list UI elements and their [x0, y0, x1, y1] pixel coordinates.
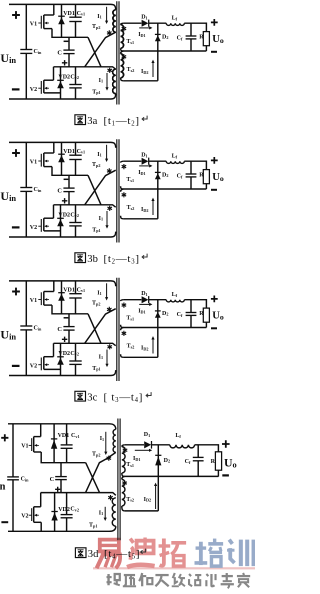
diode VD2 symbol	[57, 79, 64, 81]
transistor V1 source lead	[44, 304, 52, 306]
watermark glyph slogan 家	[237, 573, 250, 587]
current arrow I1 top	[106, 7, 108, 21]
capacitor Cf plates	[186, 173, 197, 175]
svg-text:V2: V2	[30, 363, 37, 369]
svg-text:Cin: Cin	[34, 49, 43, 55]
DC bus positive rail (top)	[9, 142, 116, 147]
transistor V2 fig3d gate bar	[31, 508, 33, 521]
svg-text:I1: I1	[97, 152, 101, 158]
watermark glyph slogan 计	[206, 574, 215, 586]
svg-text:Tp2: Tp2	[92, 301, 100, 307]
diode D2 fig3d	[155, 454, 161, 456]
wire Ts2 bottom to D2 anode	[123, 218, 157, 220]
wire R bottom lead	[205, 46, 207, 51]
diode D1	[142, 296, 149, 303]
diode D2	[155, 310, 161, 312]
svg-text:Tp1: Tp1	[92, 89, 100, 95]
svg-text:VD2: VD2	[58, 212, 70, 218]
capacitor C leads fig3d	[60, 463, 62, 493]
transistor V2 source arrow	[45, 87, 49, 89]
transistor V2 gate lead	[38, 225, 41, 227]
transformer secondary winding Ts2	[121, 328, 124, 331]
capacitor C leads	[68, 314, 70, 344]
minus terminal of Uin	[12, 88, 20, 90]
capacitor Cf leads fig3d	[197, 445, 199, 477]
DC bus negative rail (bottom)	[9, 232, 116, 237]
wire V2 drain to node B1	[53, 67, 55, 80]
svg-text:D2: D2	[162, 311, 168, 317]
wire Ts2 bottom to D2 fig3d	[125, 510, 159, 512]
diode D2	[155, 33, 161, 35]
output return rail / center tap wire	[123, 327, 206, 329]
diode VD2 symbol	[57, 356, 64, 358]
capacitor Cv1 leads	[75, 281, 77, 314]
svg-text:I1: I1	[99, 510, 103, 516]
transistor V2 fig3d gate lead	[29, 514, 32, 516]
transistor V1 gate lead	[38, 22, 41, 24]
svg-text:Ts1: Ts1	[126, 316, 134, 322]
capacitor Cf plates	[186, 312, 197, 314]
svg-text:ID1: ID1	[138, 309, 145, 315]
wire V1 source to node fig3d	[41, 452, 85, 463]
wire crossing diagonal A fig3d	[86, 463, 100, 493]
svg-text:Uo: Uo	[212, 311, 224, 322]
polarity dot primary top winding	[107, 168, 112, 173]
wire Lf to resistor R corner	[184, 300, 206, 308]
caption glyph 图	[75, 391, 86, 401]
minus terminal of Uo fig3d	[222, 474, 229, 476]
capacitor Cv2 plates	[69, 84, 81, 86]
capacitor C leads	[68, 37, 70, 67]
svg-text:Ts2: Ts2	[127, 205, 135, 211]
polarity dot Ts1 fig3d	[123, 448, 128, 453]
transformer secondary winding Ts2	[121, 51, 124, 54]
diode VD1 wire fig3d	[53, 424, 55, 463]
svg-text:Cf: Cf	[177, 36, 183, 42]
transistor V1 channel bar	[43, 292, 45, 306]
svg-text:ID2: ID2	[141, 346, 148, 352]
wire Ts1 top to diode D1	[123, 299, 141, 301]
resistor R fig3d	[215, 452, 221, 470]
current arrow ID2 fig3d	[155, 485, 157, 509]
plus terminal of Uin	[12, 11, 20, 19]
capacitor C plates	[63, 187, 74, 189]
watermark glyph slogan 天	[155, 575, 168, 586]
output return rail fig3d	[125, 475, 219, 477]
capacitor Cv2 plates	[69, 360, 81, 362]
svg-text:C: C	[57, 326, 62, 333]
transistor V2 source lead	[44, 368, 61, 370]
polarity minus of C	[64, 317, 69, 319]
svg-text:ID1: ID1	[138, 170, 145, 176]
wire bottom node horizontal fig3d	[41, 493, 116, 496]
transistor V1 fig3d channel bar	[33, 437, 35, 452]
svg-text:D2: D2	[162, 172, 168, 178]
svg-text:Cv1: Cv1	[71, 433, 80, 439]
diode VD1 symbol fig3d	[51, 438, 57, 440]
polarity dot Ts1	[122, 303, 127, 308]
polarity dot Ts1	[122, 26, 127, 31]
watermark glyph slogan 和	[139, 573, 152, 586]
capacitor Cv1 leads	[75, 142, 77, 175]
polarity dot Ts2	[122, 192, 127, 197]
transistor V2 fig3d source arrow	[35, 514, 39, 516]
watermark glyph slogan 专	[221, 573, 234, 588]
svg-text:VD2: VD2	[58, 74, 70, 80]
svg-text:Cv2: Cv2	[70, 212, 79, 218]
svg-text:Cin: Cin	[34, 187, 43, 193]
wire crossing diagonal primary top to node B1	[85, 309, 116, 344]
resistor R	[203, 32, 209, 46]
plus terminal of Uo	[211, 19, 218, 26]
input bus wire (left vertical)	[25, 142, 27, 237]
plus terminal of Uo fig3d	[222, 440, 230, 448]
input bus wire (left vertical)	[25, 4, 27, 99]
svg-text:ID2: ID2	[144, 497, 151, 503]
diode VD2 wire to negative rail	[60, 205, 62, 237]
wire Ts1 top to diode D1	[123, 160, 141, 162]
capacitor Cv1 plates	[69, 293, 81, 295]
polarity dot primary bottom fig3d	[108, 495, 113, 500]
svg-text:V1: V1	[21, 444, 28, 450]
diode VD2 wire fig3d	[54, 493, 56, 532]
plus terminal of Uin	[12, 149, 20, 157]
transformer primary winding Tp1 (bottom)	[113, 69, 116, 93]
svg-text:Tp1: Tp1	[92, 227, 100, 233]
wire crossing diagonal A1 to primary bottom	[88, 175, 101, 205]
svg-text:R: R	[199, 311, 204, 317]
transistor V2 fig3d source lead	[34, 521, 42, 523]
transistor V2 gate lead	[38, 87, 41, 89]
wire D1 to Lf fig3d	[152, 444, 170, 446]
current arrow I1 top	[106, 145, 108, 159]
current arrow ID1	[139, 27, 150, 29]
resistor R	[203, 170, 209, 184]
svg-text:R: R	[199, 35, 204, 41]
wire bottom node B1 horizontal	[54, 205, 116, 207]
polarity dot primary top winding	[107, 307, 112, 312]
transistor V1 source lead	[44, 28, 52, 30]
svg-text:V2: V2	[21, 514, 28, 520]
diode D2 wire (node to Ts2 bottom)	[157, 300, 159, 358]
svg-text:Ts1: Ts1	[126, 39, 134, 45]
svg-text:3c: 3c	[87, 393, 97, 404]
wire V2 drain to node fig3d	[40, 493, 42, 507]
output return rail / center tap wire	[123, 50, 206, 52]
transistor V1 drain lead	[44, 291, 54, 293]
transistor V1 channel bar	[43, 15, 45, 29]
svg-text:I1: I1	[97, 14, 101, 20]
svg-text:Cv1: Cv1	[77, 149, 86, 155]
wire bottom node B1 horizontal	[54, 67, 116, 69]
svg-text:ID2: ID2	[141, 69, 148, 75]
capacitor Cv2 leads fig3d	[66, 493, 68, 532]
transistor V1 source lead	[44, 166, 52, 168]
transistor V1 gate bar	[40, 292, 42, 305]
transistor V2 channel bar	[43, 218, 45, 231]
minus terminal of Uo	[211, 189, 217, 191]
current arrow I1 top	[106, 283, 108, 297]
diode VD1 symbol	[58, 15, 65, 17]
minus terminal of Uin	[12, 365, 20, 367]
svg-text:I1: I1	[99, 216, 103, 222]
svg-text:V2: V2	[30, 87, 37, 93]
watermark glyph slogan 频	[123, 575, 136, 586]
watermark glyph slogan 射	[107, 574, 120, 585]
diode VD2 wire to negative rail	[60, 343, 62, 375]
polarity dot Ts1	[122, 164, 127, 169]
caption glyph 图	[75, 548, 86, 558]
svg-text:D1: D1	[144, 432, 150, 438]
transistor V2 gate bar	[40, 219, 42, 232]
diode D2	[155, 171, 161, 173]
svg-text:3a: 3a	[87, 116, 97, 127]
capacitor Cf plates fig3d	[193, 456, 204, 458]
transistor V2 source arrow	[45, 364, 49, 366]
svg-text:VD2: VD2	[58, 507, 70, 513]
transformer primary winding Tp2 (top)	[113, 10, 116, 32]
svg-text:ID1: ID1	[133, 456, 140, 462]
svg-text:Tp1: Tp1	[92, 366, 100, 372]
current arrow ID2	[152, 62, 154, 77]
capacitor C plates fig3d	[55, 476, 67, 478]
capacitor Cv2 plates fig3d	[61, 514, 73, 516]
diode VD1 anode-cathode wire	[61, 281, 63, 314]
wire V1 drain to positive rail	[53, 281, 55, 292]
minus terminal of Uo	[211, 327, 217, 329]
transistor V2 source lead	[44, 230, 61, 232]
transistor V1 gate lead	[38, 160, 41, 162]
resistor R	[203, 308, 209, 322]
transistor V2 drain lead	[44, 79, 54, 81]
inductor Lf	[166, 23, 184, 25]
minus terminal of Uin fig3d	[1, 521, 8, 523]
wire R bottom lead	[205, 184, 207, 189]
svg-text:ID1: ID1	[138, 32, 145, 38]
transistor V1 drain lead	[44, 14, 54, 16]
wire V1 source to node A1	[52, 305, 88, 314]
wire Ts2 bottom to D2 anode	[123, 356, 157, 358]
diode D1	[142, 20, 149, 27]
plus terminal of Uin fig3d	[1, 434, 8, 441]
capacitor Cv2 leads	[75, 205, 77, 237]
svg-text:I1: I1	[97, 290, 101, 296]
transformer primary winding Tp1 fig3d	[112, 498, 116, 526]
plus terminal of Uo	[211, 296, 218, 303]
transistor V2 drain lead	[44, 356, 54, 358]
capacitor C plates	[63, 49, 74, 51]
wire Lf to resistor R corner	[184, 23, 206, 31]
wire bottom node B1 horizontal	[54, 343, 116, 345]
polarity minus of C	[64, 40, 69, 42]
transformer core	[117, 278, 119, 381]
current arrow I1 bottom	[106, 211, 108, 226]
svg-text:VD1: VD1	[63, 149, 75, 155]
diode D2 wire (node to Ts2 bottom)	[157, 23, 159, 81]
current arrow ID2	[152, 200, 154, 215]
svg-text:Uo: Uo	[212, 34, 224, 45]
svg-text:Tp1: Tp1	[89, 523, 97, 529]
DC bus negative rail (bottom)	[9, 94, 116, 99]
wire V1 drain to positive rail	[53, 4, 55, 15]
capacitor Cin	[20, 49, 32, 51]
transistor V2 gate bar	[40, 81, 42, 94]
current arrow I1 bottom	[106, 73, 108, 88]
svg-text:V1: V1	[30, 298, 37, 304]
wire crossing diagonal primary top to node B1	[85, 170, 116, 205]
wire crossing diagonal A1 to primary bottom	[88, 37, 101, 67]
current arrow ID2	[152, 339, 154, 354]
svg-text:Cv2: Cv2	[70, 74, 79, 80]
DC bus positive rail (top)	[9, 4, 116, 9]
transistor V2 channel bar	[43, 80, 45, 93]
diode VD1 symbol	[58, 153, 65, 155]
transformer secondary winding Ts1	[121, 161, 124, 162]
caption return mark	[142, 254, 147, 259]
polarity dot Ts2	[122, 54, 127, 59]
diode VD1 symbol	[58, 292, 65, 294]
transistor V2 fig3d drain lead	[34, 506, 41, 508]
capacitor Cf leads	[190, 161, 192, 189]
wire V2 drain to node B1	[53, 343, 55, 356]
svg-text:Cin: Cin	[21, 477, 30, 483]
inductor Lf	[166, 161, 184, 163]
wire Ts1 to diode D1 fig3d	[125, 444, 144, 446]
svg-text:I1: I1	[99, 354, 103, 360]
polarity dot primary bottom winding	[107, 344, 112, 349]
polarity plus of C	[62, 60, 67, 65]
svg-text:V1: V1	[30, 22, 37, 28]
current arrow ID1	[139, 303, 150, 305]
polarity plus of C fig3d	[55, 487, 60, 492]
svg-text:n: n	[0, 481, 6, 492]
polarity minus of C	[64, 178, 69, 180]
polarity dot primary top winding	[107, 30, 112, 35]
current arrow I1 bottom	[106, 350, 108, 365]
svg-text:Cv1: Cv1	[77, 11, 86, 17]
capacitor Cin	[20, 187, 32, 189]
capacitor Cin	[20, 325, 32, 327]
capacitor Cv2 leads	[75, 67, 77, 99]
transistor V2 fig3d channel bar	[33, 507, 35, 523]
svg-text:3b: 3b	[87, 254, 98, 265]
transistor V1 fig3d gate lead	[29, 444, 32, 446]
svg-text:D1: D1	[141, 291, 147, 297]
svg-text:VD1: VD1	[63, 287, 75, 293]
plus terminal of Uin	[12, 288, 20, 296]
transistor V2 source lead	[44, 92, 61, 94]
caption return mark	[146, 392, 151, 397]
capacitor Cf leads	[190, 300, 192, 328]
caption return mark	[142, 116, 147, 121]
diode VD1 anode-cathode wire	[61, 142, 63, 175]
wire V2 drain to node B1	[53, 205, 55, 218]
caption glyph 图	[75, 253, 86, 263]
input bus wire (left vertical)	[25, 281, 27, 376]
diode VD2 symbol fig3d	[51, 511, 57, 513]
transistor V1 drain lead	[44, 152, 54, 154]
svg-text:V1: V1	[30, 160, 37, 166]
wire crossing diagonal A1 to primary bottom	[88, 314, 101, 344]
svg-text:Lf: Lf	[172, 16, 178, 22]
wire V1 drain to positive rail	[53, 142, 55, 153]
caption glyph 图	[75, 115, 86, 125]
polarity dot Ts2 fig3d	[122, 480, 127, 485]
wire Lf to R corner fig3d	[195, 445, 219, 452]
svg-text:R: R	[211, 459, 216, 465]
watermark glyph slogan 线	[172, 573, 185, 586]
current arrow I1 top fig3d	[105, 432, 107, 452]
watermark glyph di 迪	[127, 538, 155, 568]
watermark glyph tuo 拓	[159, 539, 187, 567]
watermark underline	[93, 567, 255, 569]
DC bus negative rail (bottom)	[9, 370, 116, 375]
svg-text:Uo: Uo	[212, 172, 224, 183]
svg-text:VD2: VD2	[58, 351, 70, 357]
transistor V1 fig3d source lead	[34, 451, 42, 453]
current arrow ID1	[139, 165, 150, 167]
polarity plus of C	[62, 337, 67, 342]
polarity dot primary bottom winding	[107, 206, 112, 211]
svg-text:Cin: Cin	[34, 326, 43, 332]
DC bus positive rail (top)	[9, 281, 116, 286]
watermark glyph slogan 设	[189, 574, 201, 586]
svg-text:Cv2: Cv2	[70, 507, 79, 513]
transistor V1 gate bar	[40, 154, 42, 167]
transformer primary winding Tp2 (top)	[113, 10, 116, 32]
caption return mark	[141, 549, 146, 554]
current arrow I1 bottom fig3d	[104, 507, 106, 518]
output return rail / center tap wire	[123, 188, 206, 190]
svg-text:Ts2: Ts2	[127, 67, 135, 73]
svg-text:VD1: VD1	[58, 433, 70, 439]
input bus wire fig3d	[12, 424, 14, 532]
svg-text:3d: 3d	[88, 549, 99, 560]
inductor Lf fig3d	[170, 445, 195, 448]
svg-text:Tp2: Tp2	[92, 452, 100, 458]
capacitor Cin fig3d	[7, 476, 19, 478]
transformer secondary winding Ts2 fig3d	[122, 476, 125, 479]
transformer secondary winding Ts1	[121, 23, 124, 24]
minus terminal of Uo	[211, 51, 217, 53]
transformer core	[117, 139, 119, 242]
diode VD1 anode-cathode wire	[61, 4, 63, 37]
diode D1	[142, 158, 149, 165]
polarity plus of C	[62, 198, 67, 203]
svg-text:Cv2: Cv2	[70, 351, 79, 357]
svg-text:Cf: Cf	[177, 174, 183, 180]
transformer core fig3d	[118, 419, 120, 541]
plus terminal of Uo	[211, 157, 218, 164]
svg-text:Cf: Cf	[177, 312, 183, 318]
svg-text:Lf: Lf	[175, 433, 181, 439]
inductor Lf	[166, 300, 184, 302]
wire D1 cathode to Lf	[149, 22, 167, 24]
svg-text:VD1: VD1	[63, 11, 75, 17]
capacitor Cv1 leads	[75, 4, 77, 37]
wire V1 source to node A1	[52, 167, 88, 176]
wire V1 drain to rail fig3d	[40, 424, 42, 437]
wire D1 cathode to Lf	[149, 160, 167, 162]
capacitor Cv1 plates	[69, 154, 81, 156]
watermark glyph xun 训	[227, 540, 254, 567]
svg-text:I1: I1	[100, 436, 104, 442]
transformer secondary winding Ts1	[121, 300, 124, 301]
transistor V2 gate lead	[38, 364, 41, 366]
capacitor Cv1 leads fig3d	[66, 424, 68, 463]
transformer secondary winding Ts2	[121, 189, 124, 192]
transistor V1 gate bar	[40, 16, 42, 29]
